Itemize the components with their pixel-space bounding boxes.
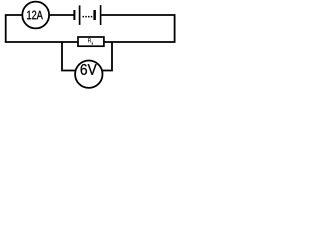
battery long plate (positive, right cell) <box>100 5 102 25</box>
battery short plate (negative, left cell) <box>73 10 75 20</box>
value label R <box>88 38 91 42</box>
voltage source 6V <box>75 60 102 87</box>
battery long plate (positive, left cell) <box>79 5 81 25</box>
resistor body box <box>78 37 104 46</box>
voltage source circle <box>75 60 102 87</box>
wire top rail mid <box>49 14 73 16</box>
wire bottom rail left <box>5 41 78 43</box>
value label 6V <box>81 64 97 75</box>
wire bottom rail right <box>104 41 176 43</box>
wire right side <box>174 14 176 42</box>
resistor Ri <box>78 37 104 46</box>
subscript i <box>91 42 94 45</box>
battery short plate (negative, right cell) <box>93 10 96 20</box>
current source 12A <box>22 2 49 29</box>
wire right drop to 6V <box>102 42 112 71</box>
current source circle <box>22 2 49 29</box>
wire left drop to 6V <box>62 42 76 71</box>
wire top rail right <box>101 14 174 16</box>
battery <box>74 5 100 25</box>
value label 12A <box>27 11 43 20</box>
battery ellipsis dots <box>83 16 85 18</box>
wire top rail left <box>6 15 23 42</box>
